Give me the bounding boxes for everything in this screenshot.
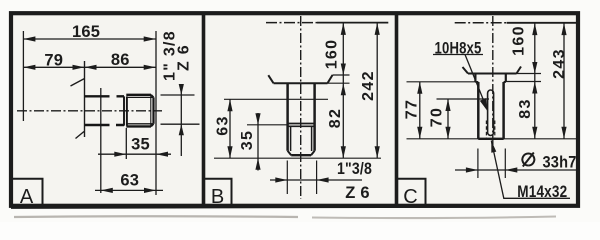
dim C diameter arrows (466, 167, 478, 172)
label box C (398, 179, 426, 205)
thread callout B dim line (270, 179, 362, 181)
panel A centerline (17, 110, 162, 112)
panel B face extension (328, 82, 350, 84)
shaft A cylinder top edge (85, 95, 125, 97)
dim 63 line (95, 189, 163, 191)
shaft A end face (152, 97, 154, 123)
shaft B right side (313, 83, 316, 151)
leader 10H8x5 underline (433, 54, 483, 56)
svg-text:86: 86 (111, 51, 130, 69)
dim B 82 arrows (341, 83, 346, 95)
svg-text:Z 6: Z 6 (345, 184, 369, 202)
panel B extension 35-top (247, 124, 288, 126)
scan shadow bottom left (14, 215, 298, 218)
dim C 83 arrows (532, 82, 537, 94)
svg-text:160: 160 (511, 25, 528, 56)
svg-text:35: 35 (131, 136, 150, 154)
svg-text:243: 243 (551, 48, 568, 79)
dim B 160 arrows (341, 23, 346, 35)
dim B 63 line (229, 99, 231, 158)
thread callout A bottom extension (161, 123, 200, 125)
panel C keyway extension (70) (437, 98, 490, 100)
shaft A end chamfers (151, 95, 154, 127)
panel B bottom extension line (214, 157, 381, 159)
panel B top face line (317, 22, 388, 24)
shaft B bottom face (291, 154, 311, 156)
dim C 70 arrows (445, 99, 450, 111)
shaft C collar sides (475, 74, 505, 83)
dim 165 line (23, 38, 155, 40)
dim C 160 arrows (532, 23, 537, 35)
svg-text:1"3/8: 1"3/8 (337, 160, 372, 178)
svg-text:M14x32: M14x32 (517, 183, 567, 201)
panel C housing face (463, 67, 522, 74)
panel C step extension left (77) (407, 81, 476, 83)
shaft B bottom chamfers (288, 151, 315, 155)
shaft C keyway slot (488, 90, 494, 136)
svg-text:83: 83 (517, 98, 534, 118)
svg-text:77: 77 (404, 99, 421, 119)
panel A extension line left (165/79) (22, 31, 24, 121)
panel C centerline (492, 16, 494, 148)
dim 63 arrows (101, 188, 113, 193)
dim C 243 arrows (561, 23, 566, 35)
panel B centerline (300, 16, 302, 199)
outer frame bottom reinforcement (11, 206, 578, 207)
dim B 242 arrows (375, 23, 380, 35)
dim B 35 arrows (255, 113, 260, 125)
dim C 77 arrows (417, 82, 422, 94)
dim C 160/83 line (534, 23, 536, 139)
panel B whisker extension (333, 74, 350, 76)
panel C top face centerline part (455, 22, 507, 24)
svg-text:10H8x5: 10H8x5 (435, 40, 482, 58)
svg-text:33h7: 33h7 (543, 153, 577, 171)
label box B (205, 179, 232, 205)
shaft B thread core lines (291, 127, 312, 151)
svg-text:82: 82 (327, 108, 344, 128)
dim 35 arrows (114, 152, 126, 157)
thread callout A top extension (161, 94, 195, 96)
dim 79/86 line (23, 66, 155, 68)
outer drawing frame (11, 13, 578, 206)
dim B 35 line (257, 113, 259, 171)
panel B top face centerline part (266, 22, 317, 24)
dim C diameter extension lines (478, 149, 505, 179)
svg-text:Z 6: Z 6 (176, 44, 193, 71)
shaft B left side (286, 83, 289, 151)
label box A (12, 179, 43, 205)
diameter symbol (522, 153, 534, 167)
panel A extension line right (155, 31, 157, 195)
svg-text:70: 70 (429, 107, 446, 127)
svg-text:63: 63 (120, 172, 139, 190)
svg-text:B: B (211, 186, 224, 208)
thread callout B arrows (275, 177, 287, 182)
leader 10H8x5 arrow (480, 98, 488, 112)
dim 35 line (98, 153, 171, 155)
svg-text:35: 35 (239, 130, 256, 150)
thread callout A vertical line (180, 84, 182, 156)
thread callout A arrows (179, 84, 184, 95)
dim B 63 arrows (227, 99, 232, 111)
panel B housing face (268, 75, 332, 83)
panel divider B|C (395, 13, 399, 206)
shaft A edge notch top (110, 94, 117, 100)
shaft A cylinder bottom edge (85, 124, 125, 126)
svg-text:A: A (20, 186, 34, 208)
panel A extension line 63-left (100, 88, 102, 193)
panel divider A|B (202, 13, 206, 206)
panel A break line / extension 79-86 (71, 61, 85, 139)
shaft A groove (124, 96, 127, 125)
dim 79 arrows (23, 65, 35, 70)
shaft B groove (288, 124, 315, 127)
shaft C tapped hole M14 hidden lines (486, 121, 494, 139)
svg-text:63: 63 (215, 115, 232, 135)
panel B extension 63-top (224, 98, 328, 100)
shaft C left side (477, 82, 480, 139)
panel C bottom extension line (407, 138, 577, 140)
dim B 160/82 line (342, 23, 344, 159)
dim C 70 line (447, 99, 449, 139)
shaft C right side (502, 82, 505, 139)
panel C face extension right (517, 73, 542, 75)
dim 86 arrows (85, 65, 97, 70)
leader M14x32 (491, 141, 570, 199)
dim 165 arrows (23, 36, 35, 41)
shaft C step edges (475, 81, 505, 83)
scan shadow bottom right (312, 217, 556, 219)
thread callout B extension lines (287, 161, 316, 195)
svg-text:242: 242 (360, 70, 377, 101)
shaft A thread core lines (127, 97, 153, 123)
dim B 242 line (376, 23, 378, 159)
panel C step extension right (506, 81, 541, 83)
dim C diameter line (455, 169, 577, 171)
svg-text:C: C (403, 186, 417, 208)
dim C 243 line (563, 23, 565, 139)
svg-text:79: 79 (44, 51, 63, 69)
panel C top face line (507, 22, 577, 24)
leader 10H8x5 line (465, 55, 488, 111)
leader M14 arrow (491, 141, 496, 153)
shaft A edge notch bottom (110, 122, 117, 128)
svg-text:160: 160 (323, 39, 340, 70)
shaft C bottom face (478, 138, 503, 140)
dim C 77 line (419, 82, 421, 139)
shaft A thread crest top (126, 94, 151, 96)
svg-text:165: 165 (72, 23, 100, 41)
panel A extension line 35-left (125, 128, 127, 159)
shaft A thread crest bottom (126, 125, 151, 127)
shaft A chamfer start line (150, 95, 152, 127)
